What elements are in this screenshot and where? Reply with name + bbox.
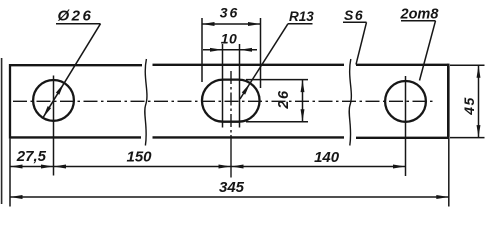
svg-text:345: 345 bbox=[219, 179, 245, 196]
plate outline: top edge segment 2 bbox=[153, 64, 345, 66]
dim 36: dimension line bbox=[202, 23, 261, 25]
plate outline: bottom edge segment 2 bbox=[153, 136, 345, 138]
break line 1 (wavy) bbox=[145, 59, 147, 146]
svg-text:36: 36 bbox=[220, 5, 240, 21]
dim 45: extension lines bbox=[450, 64, 485, 66]
label 2otv: leader bbox=[420, 21, 436, 81]
label S6: shelf bbox=[343, 21, 367, 23]
plate outline: left edge bbox=[9, 64, 11, 139]
svg-text:150: 150 bbox=[126, 148, 152, 165]
dim 45: dimension line bbox=[478, 65, 480, 137]
dim 10: outside arrows bbox=[210, 48, 223, 52]
scan page-edge artifact line bbox=[1, 58, 3, 204]
plate outline: bottom edge segment 1 bbox=[10, 136, 141, 138]
svg-text:140: 140 bbox=[314, 149, 340, 166]
plate outline: right edge bbox=[447, 64, 450, 139]
label Ø26: leader (diameter line) bbox=[43, 24, 101, 118]
slot vertical centerline / extension bbox=[230, 71, 232, 133]
row1/row2 extension: right plate edge extended bbox=[448, 139, 450, 207]
dim row1: arrows bbox=[10, 165, 23, 169]
left hole vertical centerline / extension bbox=[53, 76, 55, 176]
dim 36: extension lines bbox=[201, 18, 203, 82]
svg-text:45: 45 bbox=[461, 96, 477, 116]
svg-text:S6: S6 bbox=[344, 7, 364, 23]
dim row1: dimension line 27,5 / 150 / 140 bbox=[10, 166, 406, 168]
label S6: leader bbox=[356, 22, 367, 64]
dim 10: extension lines bbox=[222, 44, 224, 128]
label R13: arrowhead on arc bbox=[242, 83, 250, 95]
right hole vertical centerline / extension bbox=[405, 76, 407, 176]
horizontal centerline (dash-dot) bbox=[13, 100, 434, 102]
left hole bbox=[33, 80, 74, 121]
svg-text:27,5: 27,5 bbox=[16, 148, 47, 165]
dim 26: extension lines bbox=[246, 79, 308, 81]
svg-text:R13: R13 bbox=[289, 9, 314, 24]
break line 2 (wavy) bbox=[349, 59, 351, 146]
label R13: shelf bbox=[288, 23, 313, 25]
svg-text:26: 26 bbox=[276, 89, 292, 109]
dim 10: dimension line bbox=[203, 49, 257, 51]
label Ø26: arrowheads on circle bbox=[56, 83, 64, 95]
row1 extension: left plate edge extended bbox=[9, 139, 11, 207]
dim 45: arrows bbox=[477, 65, 481, 78]
dim 26: arrows bbox=[301, 80, 305, 93]
svg-text:Ø26: Ø26 bbox=[58, 8, 94, 25]
label Ø26: shelf bbox=[56, 23, 101, 25]
plate outline: bottom edge segment 3 bbox=[356, 137, 449, 139]
dim row2: dimension line 345 bbox=[10, 196, 449, 198]
svg-text:10: 10 bbox=[221, 31, 238, 47]
svg-text:2om8: 2om8 bbox=[400, 6, 440, 22]
dim 26: dimension line bbox=[302, 80, 304, 122]
slot (obround) bbox=[202, 80, 260, 122]
label 2otv: shelf bbox=[401, 20, 436, 22]
plate outline: top edge segment 1 bbox=[10, 64, 142, 66]
dim 36: arrows bbox=[202, 22, 215, 26]
label R13: leader bbox=[240, 24, 288, 99]
right hole bbox=[385, 81, 426, 122]
plate outline: top edge segment 3 bbox=[356, 64, 449, 66]
dim row2: arrows bbox=[10, 195, 23, 199]
